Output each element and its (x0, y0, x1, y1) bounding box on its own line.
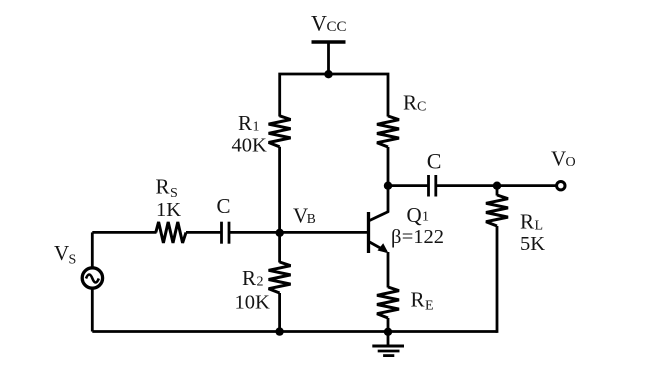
wire RL node down (496, 186, 499, 196)
wire emitter vertical (387, 252, 390, 288)
svg-text:Q: Q (407, 203, 422, 227)
wire VB to R2 (278, 232, 281, 262)
RE label (411, 288, 434, 314)
wire output cap to RL node (436, 184, 497, 187)
node ground dot (384, 328, 392, 336)
wire R1 to VB (278, 147, 281, 233)
wire RL to bottom rail (496, 226, 499, 333)
node bottom R2 dot (275, 327, 283, 335)
ground (372, 332, 404, 356)
RC label (403, 91, 426, 115)
resistor R1 (269, 116, 291, 147)
wire collector vertical (387, 186, 390, 213)
wire collector node to output cap (388, 184, 429, 187)
transistor Q1 (369, 212, 389, 254)
wire C to VB (229, 231, 280, 234)
capacitor C input (220, 222, 223, 244)
wire R2 to bottom rail (278, 293, 281, 332)
svg-text:V: V (54, 241, 69, 265)
VB label (293, 204, 316, 228)
svg-text:L: L (535, 219, 544, 234)
wire left vertical bottom (91, 290, 94, 332)
svg-text:B: B (307, 211, 316, 226)
node RL dot (493, 182, 501, 190)
svg-text:1: 1 (253, 120, 260, 135)
resistor RL (486, 195, 508, 226)
Vcc label (311, 11, 347, 36)
svg-text:R: R (238, 111, 252, 135)
svg-text:40K: 40K (232, 135, 268, 157)
R1 value label (232, 111, 268, 157)
svg-text:CC: CC (327, 19, 347, 35)
wire left vertical top (91, 232, 94, 266)
node Vcc junction dot (324, 70, 332, 78)
svg-text:R: R (156, 175, 170, 199)
wire RE to bottom rail (387, 318, 390, 332)
svg-text:V: V (311, 11, 327, 36)
R2 value label (235, 266, 271, 314)
svg-text:R: R (242, 266, 256, 290)
svg-text:=: = (402, 226, 414, 248)
svg-text:122: 122 (413, 226, 444, 248)
resistor RS (156, 222, 186, 243)
svg-text:R: R (411, 288, 425, 312)
wire Vcc stem (327, 42, 330, 74)
wire input top (92, 231, 156, 234)
Vcc supply bar (312, 40, 346, 43)
svg-text:S: S (69, 253, 77, 268)
svg-text:1: 1 (422, 210, 429, 225)
svg-text:2: 2 (257, 275, 264, 290)
terminal Vo open circle (557, 182, 565, 190)
node collector dot (384, 182, 392, 190)
Vo label (551, 147, 576, 171)
node VB dot (276, 229, 284, 237)
svg-text:C: C (417, 100, 426, 115)
svg-text:O: O (566, 155, 576, 170)
svg-text:10K: 10K (235, 292, 271, 314)
wire VB to base (280, 231, 369, 234)
Vs label (54, 241, 76, 268)
svg-text:β: β (391, 226, 401, 248)
beta label (391, 226, 444, 248)
svg-text:E: E (425, 299, 434, 314)
source Vs (82, 268, 102, 288)
RS value label (156, 175, 182, 222)
resistor RE (377, 287, 399, 318)
svg-text:R: R (403, 91, 417, 115)
svg-text:V: V (551, 147, 566, 171)
wire bottom rail (92, 330, 497, 333)
svg-text:5K: 5K (520, 233, 545, 255)
svg-text:R: R (520, 210, 534, 234)
Q1 label (407, 203, 430, 227)
wire RL node to Vo terminal (497, 184, 556, 187)
capacitor C output (427, 175, 430, 197)
svg-text:C: C (427, 149, 442, 174)
RL value label (520, 210, 545, 256)
resistor RC (377, 116, 399, 147)
svg-text:C: C (217, 194, 231, 218)
wire top rail (280, 74, 388, 117)
resistor R2 (269, 262, 291, 293)
svg-text:1K: 1K (156, 199, 181, 221)
wire RC to collector node (387, 147, 390, 186)
wire RS to C (186, 231, 222, 234)
